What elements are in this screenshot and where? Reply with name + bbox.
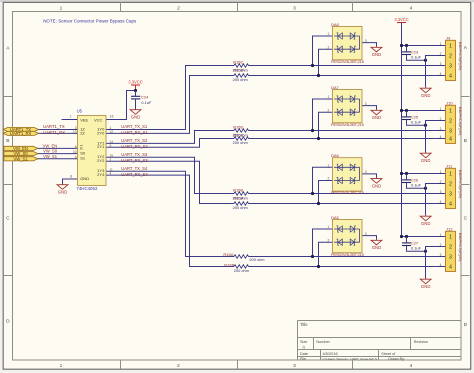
svg-text:4/5/2016: 4/5/2016 (323, 351, 338, 356)
svg-text:3.3VCC: 3.3VCC (394, 17, 408, 22)
svg-text:DA8: DA8 (331, 22, 340, 27)
svg-text:1: 1 (440, 107, 442, 111)
svg-text:2Y0: 2Y0 (97, 130, 105, 135)
svg-text:1: 1 (449, 171, 452, 177)
svg-text:UART_RX_S2: UART_RX_S2 (121, 144, 148, 149)
svg-text:2Y3: 2Y3 (97, 172, 105, 177)
svg-text:0.1uF: 0.1uF (411, 55, 422, 60)
svg-text:0.1uF: 0.1uF (411, 120, 422, 125)
svg-text:200 ohm: 200 ohm (233, 140, 248, 145)
svg-text:1: 1 (449, 43, 452, 49)
svg-text:VW_EN: VW_EN (43, 143, 58, 148)
svg-text:3: 3 (293, 363, 296, 369)
svg-text:R16A: R16A (223, 252, 233, 257)
svg-text:GND: GND (421, 93, 431, 98)
svg-text:B4B-PH-K-S(LF)(SN): B4B-PH-K-S(LF)(SN) (458, 233, 462, 262)
svg-text:B: B (6, 138, 9, 144)
svg-text:4: 4 (410, 5, 413, 11)
svg-text:File: File (300, 357, 306, 361)
svg-text:1: 1 (328, 95, 330, 99)
svg-text:PESD3V3L2BT,215: PESD3V3L2BT,215 (331, 59, 365, 64)
svg-text:13: 13 (73, 130, 77, 134)
svg-text:3: 3 (449, 63, 452, 69)
svg-text:1: 1 (328, 225, 330, 229)
svg-text:1: 1 (440, 170, 442, 174)
svg-text:GND: GND (421, 158, 431, 163)
svg-text:UART1_TX: UART1_TX (43, 124, 65, 129)
svg-text:2: 2 (449, 244, 452, 250)
svg-text:Size: Size (300, 340, 307, 344)
svg-text:3: 3 (365, 170, 367, 174)
svg-text:3: 3 (365, 232, 367, 236)
svg-text:9: 9 (75, 155, 77, 159)
svg-text:J11: J11 (446, 163, 453, 168)
svg-text:2: 2 (440, 117, 442, 121)
svg-text:1: 1 (328, 164, 330, 168)
svg-text:74HC4052: 74HC4052 (76, 186, 98, 191)
svg-text:2Y1: 2Y1 (97, 144, 105, 149)
svg-text:S1: S1 (80, 156, 86, 161)
svg-text:4: 4 (449, 73, 452, 79)
svg-text:R16B: R16B (233, 188, 243, 193)
svg-text:2: 2 (440, 180, 442, 184)
svg-text:DA6: DA6 (331, 153, 340, 158)
svg-text:200 ohm: 200 ohm (234, 268, 249, 273)
svg-text:GND: GND (80, 176, 89, 181)
svg-text:B4B-PH-K-S(LF)(SN): B4B-PH-K-S(LF)(SN) (458, 42, 462, 71)
svg-text:GND: GND (372, 183, 382, 188)
svg-text:1: 1 (440, 42, 442, 46)
svg-text:2: 2 (440, 243, 442, 247)
svg-text:3: 3 (365, 39, 367, 43)
svg-text:200 ohm: 200 ohm (233, 205, 248, 210)
svg-text:1: 1 (60, 5, 63, 11)
svg-text:D: D (6, 319, 10, 325)
svg-text:4: 4 (440, 263, 442, 267)
svg-text:2: 2 (177, 363, 180, 369)
svg-text:1: 1 (60, 363, 63, 369)
svg-text:PESD3V3L2BT,215: PESD3V3L2BT,215 (331, 122, 365, 127)
svg-text:4: 4 (440, 135, 442, 139)
svg-text:4: 4 (449, 201, 452, 207)
svg-text:VW_S1: VW_S1 (43, 154, 58, 159)
svg-text:3: 3 (440, 190, 442, 194)
svg-text:3: 3 (449, 254, 452, 260)
svg-text:2Z: 2Z (80, 130, 85, 135)
svg-text:3: 3 (440, 62, 442, 66)
svg-text:2: 2 (449, 181, 452, 187)
svg-text:3: 3 (449, 191, 452, 197)
svg-text:7: 7 (70, 115, 72, 119)
svg-text:200 ohm: 200 ohm (233, 196, 248, 201)
svg-text:5: 5 (110, 144, 112, 148)
svg-text:GND: GND (372, 115, 382, 120)
svg-text:200 ohm: 200 ohm (233, 77, 248, 82)
svg-text:R16D: R16D (233, 125, 243, 130)
svg-text:3.3VCC: 3.3VCC (128, 79, 142, 84)
svg-text:UART_RX_S1: UART_RX_S1 (121, 130, 148, 135)
svg-text:C:\Users\..\Sensors - UART_Gro: C:\Users\..\Sensors - UART_Grove-Sch.S (323, 357, 377, 361)
svg-text:B4B-PH-K-S(LF)(SN): B4B-PH-K-S(LF)(SN) (458, 170, 462, 199)
svg-text:2: 2 (328, 238, 330, 242)
svg-text:B4B-PH-K-S(LF)(SN): B4B-PH-K-S(LF)(SN) (458, 107, 462, 136)
svg-text:2: 2 (328, 177, 330, 181)
svg-text:DA7: DA7 (331, 85, 340, 90)
svg-text:16: 16 (110, 114, 114, 118)
svg-text:VCC: VCC (94, 117, 103, 122)
svg-text:2: 2 (449, 53, 452, 59)
svg-text:0.1uF: 0.1uF (411, 183, 422, 188)
svg-text:VW_S1: VW_S1 (13, 156, 28, 161)
svg-text:200 ohm: 200 ohm (249, 257, 264, 262)
svg-text:2Y2: 2Y2 (97, 158, 105, 163)
svg-text:PESD3V3L2BT,215: PESD3V3L2BT,215 (331, 252, 365, 257)
svg-text:2: 2 (328, 45, 330, 49)
svg-text:0.1uF: 0.1uF (141, 100, 152, 105)
svg-text:R16B: R16B (224, 262, 234, 267)
svg-text:Revision: Revision (414, 340, 429, 344)
svg-text:R16C: R16C (233, 60, 243, 65)
svg-text:2: 2 (449, 118, 452, 124)
svg-text:4: 4 (449, 264, 452, 270)
svg-text:6: 6 (75, 145, 77, 149)
svg-text:GND: GND (372, 52, 382, 57)
svg-text:3: 3 (365, 102, 367, 106)
svg-text:C: C (464, 216, 468, 222)
svg-text:3: 3 (440, 253, 442, 257)
svg-text:PESD3V3L2BT,215: PESD3V3L2BT,215 (331, 190, 365, 195)
svg-text:Date: Date (300, 352, 308, 356)
svg-text:UART_TX_S1: UART_TX_S1 (121, 124, 148, 129)
svg-text:UART_RX_S4: UART_RX_S4 (121, 172, 148, 177)
svg-text:4: 4 (449, 136, 452, 142)
svg-text:200 ohm: 200 ohm (233, 133, 248, 138)
svg-text:4: 4 (110, 172, 112, 176)
svg-text:C24: C24 (141, 95, 149, 100)
svg-text:U5: U5 (77, 109, 83, 114)
svg-text:3: 3 (449, 128, 452, 134)
svg-text:UART_RX_S3: UART_RX_S3 (121, 158, 148, 163)
svg-text:Drawn By:: Drawn By: (388, 357, 405, 361)
svg-text:0.1uF: 0.1uF (411, 246, 422, 251)
svg-text:4: 4 (410, 363, 413, 369)
svg-text:UART1_RX: UART1_RX (10, 131, 32, 136)
svg-text:10: 10 (73, 150, 77, 154)
svg-text:VEE: VEE (80, 117, 88, 122)
svg-text:Number: Number (316, 340, 330, 344)
svg-text:1: 1 (328, 32, 330, 36)
svg-text:3: 3 (293, 5, 296, 11)
svg-text:4: 4 (440, 72, 442, 76)
svg-text:200 ohm: 200 ohm (233, 68, 248, 73)
svg-text:3: 3 (440, 127, 442, 131)
svg-text:2: 2 (328, 108, 330, 112)
svg-text:1: 1 (440, 233, 442, 237)
svg-text:A: A (302, 344, 305, 349)
svg-text:Title: Title (300, 322, 308, 327)
svg-text:UART_TX_S2: UART_TX_S2 (121, 138, 148, 143)
svg-text:Sheet of: Sheet of (381, 352, 396, 356)
svg-text:8: 8 (70, 175, 72, 179)
svg-text:2: 2 (177, 5, 180, 11)
svg-text:DA5: DA5 (331, 215, 340, 220)
svg-text:UART1_RX: UART1_RX (43, 130, 65, 135)
svg-text:4: 4 (440, 200, 442, 204)
svg-text:C: C (6, 216, 10, 222)
svg-text:GND: GND (372, 245, 382, 250)
svg-text:UART_TX_S4: UART_TX_S4 (121, 166, 148, 171)
svg-text:12: 12 (110, 130, 114, 134)
svg-text:J10: J10 (446, 100, 453, 105)
svg-text:2: 2 (440, 52, 442, 56)
svg-text:GND: GND (421, 284, 431, 289)
svg-text:GND: GND (421, 221, 431, 226)
svg-text:GND: GND (131, 114, 141, 119)
svg-text:UART_TX_S3: UART_TX_S3 (121, 152, 148, 157)
svg-text:J12: J12 (446, 226, 453, 231)
svg-text:D: D (464, 322, 468, 328)
svg-text:1: 1 (449, 108, 452, 114)
svg-text:B: B (464, 138, 467, 144)
svg-text:GND: GND (58, 189, 68, 194)
svg-text:NOTE: Sensor Connector Power B: NOTE: Sensor Connector Power Bypass Caps (43, 19, 137, 24)
svg-text:1: 1 (449, 234, 452, 240)
svg-text:2: 2 (110, 158, 112, 162)
